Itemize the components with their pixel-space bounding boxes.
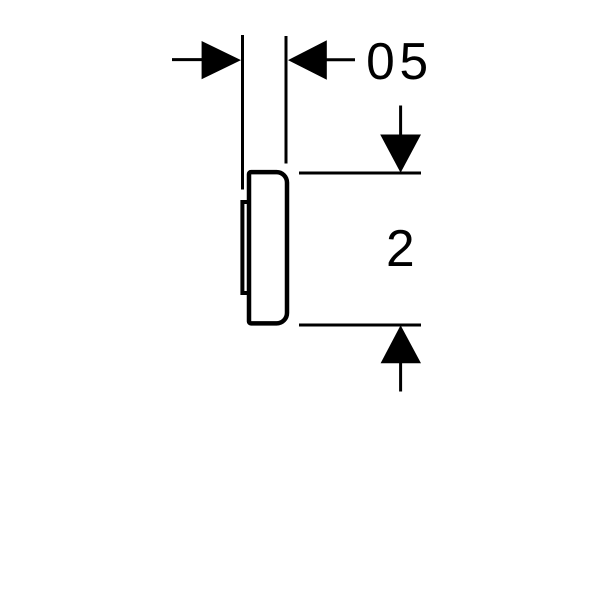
svg-text:5: 5 — [399, 32, 428, 90]
left arrowhead — [202, 41, 241, 79]
right arrowhead — [288, 40, 327, 79]
plate profile outline — [249, 172, 287, 323]
bottom dimension line — [299, 324, 421, 327]
plate back flange — [242, 202, 250, 293]
down arrowhead — [380, 135, 421, 173]
up arrow stem — [399, 361, 402, 392]
svg-text:2: 2 — [386, 219, 415, 277]
up arrowhead — [381, 325, 421, 363]
left arrow tail — [172, 58, 204, 61]
extension line right — [285, 36, 288, 164]
right arrow tail — [325, 58, 356, 61]
top dimension line — [299, 172, 421, 175]
down arrow stem — [399, 106, 402, 138]
svg-text:0: 0 — [366, 32, 395, 90]
extension line left — [241, 35, 244, 190]
